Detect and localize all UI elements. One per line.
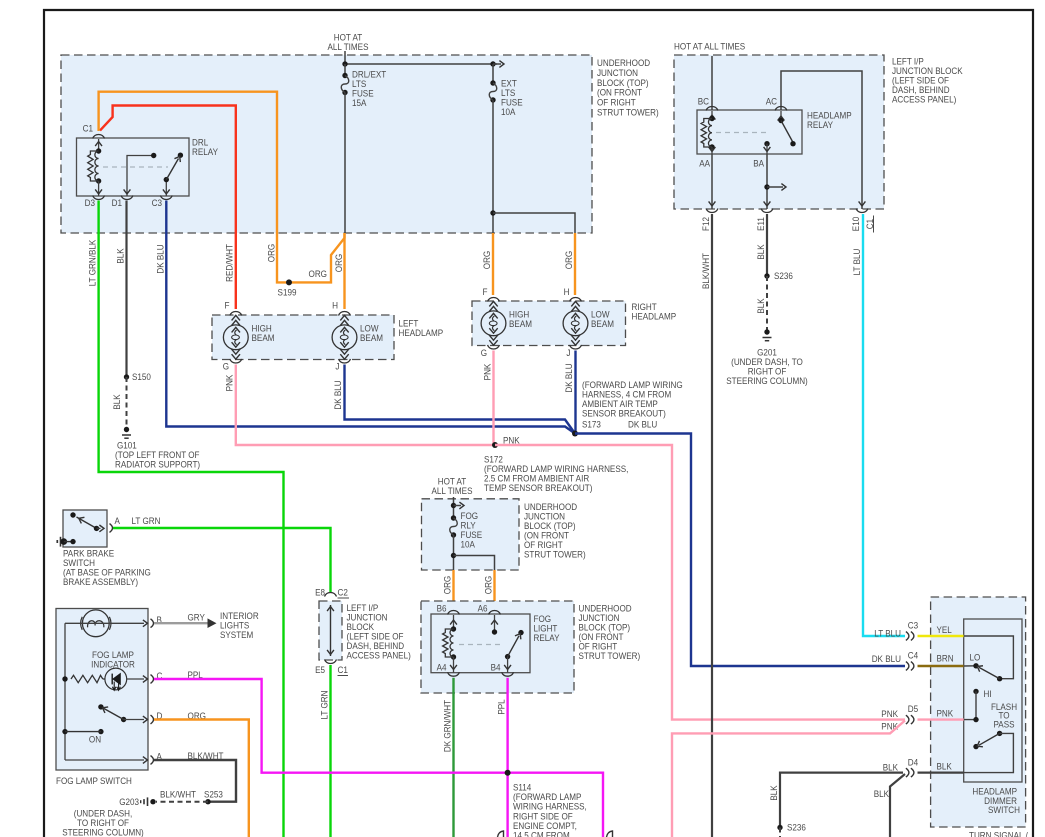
relay DRL box [77, 138, 190, 196]
pin A connector [110, 524, 113, 533]
relay HEADLAMP box [697, 110, 802, 154]
svg-text:D3: D3 [85, 198, 95, 209]
svg-text:ALL TIMES: ALL TIMES [432, 486, 473, 497]
pin C3 connector [160, 196, 172, 200]
svg-text:AA: AA [699, 159, 710, 170]
pin F connector [488, 298, 500, 302]
svg-text:ORG: ORG [266, 244, 277, 263]
pin A connector [65, 759, 144, 761]
pin A4 connector [448, 672, 460, 676]
splice S173 [572, 431, 578, 437]
svg-text:BEAM: BEAM [252, 333, 275, 344]
pin D connector [151, 715, 154, 724]
svg-text:G: G [481, 348, 487, 359]
svg-text:ORG: ORG [334, 254, 345, 273]
junction node [342, 61, 347, 66]
connector stub bottom left [498, 831, 504, 837]
svg-text:G: G [223, 362, 229, 373]
svg-text:DK BLU: DK BLU [628, 420, 657, 431]
svg-text:H: H [332, 301, 338, 312]
svg-text:RELAY: RELAY [192, 147, 219, 158]
wire DK BLU right low beam to S173 [574, 351, 576, 434]
svg-text:SENSOR BREAKOUT): SENSOR BREAKOUT) [582, 409, 666, 420]
left I/P junction block pass-through dashed box [319, 601, 342, 660]
pin H connector [570, 298, 582, 302]
pin AA exit [709, 147, 716, 152]
wire AC feed from box bottom [781, 71, 862, 209]
pin D1 contact [127, 156, 154, 197]
svg-text:BLK: BLK [937, 762, 953, 773]
svg-text:RADIATOR SUPPORT): RADIATOR SUPPORT) [115, 460, 200, 471]
DRL relay linkage dashed [103, 166, 168, 168]
wire hot feed bus [344, 51, 346, 64]
svg-text:BEAM: BEAM [509, 319, 532, 330]
svg-text:HI: HI [984, 689, 992, 700]
wire LT GRN/BLK from D3 [99, 201, 284, 837]
pin J connector [339, 359, 351, 363]
DRL relay coil [98, 139, 100, 151]
svg-text:FOG LAMP SWITCH: FOG LAMP SWITCH [56, 776, 132, 787]
dimmer arm LO [997, 676, 1002, 681]
wire ORG fuse2 to right high beam F [492, 233, 494, 295]
bulb left high beam [223, 325, 248, 350]
svg-text:DK GRN/WHT: DK GRN/WHT [442, 700, 453, 752]
wire BLK dashed to G101 [126, 377, 128, 428]
svg-text:BEAM: BEAM [360, 333, 383, 344]
fog relay coil [453, 615, 455, 629]
wire ORG from C1 to S199 [99, 92, 345, 283]
pin H connector [339, 312, 351, 316]
svg-text:PNK: PNK [881, 709, 898, 720]
relay FOG LIGHT box [431, 614, 530, 673]
splice S236 [764, 273, 769, 278]
pin J connector [570, 345, 582, 349]
svg-text:C1: C1 [865, 219, 876, 229]
pin B4 connector [502, 672, 514, 676]
svg-text:BLK: BLK [756, 244, 767, 260]
svg-text:A4: A4 [437, 663, 447, 674]
connector E11 [761, 209, 773, 213]
svg-text:14.5 CM FROM: 14.5 CM FROM [513, 831, 570, 837]
splice S199 [286, 279, 292, 285]
pin AC connector [775, 107, 787, 111]
pin A6 connector [489, 611, 501, 615]
svg-text:HOT AT ALL TIMES: HOT AT ALL TIMES [674, 42, 745, 53]
svg-text:10A: 10A [461, 540, 476, 551]
svg-text:ACCESS PANEL): ACCESS PANEL) [347, 650, 411, 661]
svg-text:C2: C2 [338, 588, 348, 599]
wire DK GRN/WHT from A4 down [452, 678, 454, 837]
svg-text:S236: S236 [787, 823, 806, 834]
relay switch arm [165, 180, 167, 196]
svg-text:C4: C4 [908, 651, 918, 662]
park brake case ground [56, 540, 58, 543]
pin BA contact [764, 141, 769, 146]
svg-text:BC: BC [698, 97, 709, 108]
bulb right low beam [563, 311, 588, 336]
switch PARK BRAKE box [63, 510, 107, 547]
svg-text:SYSTEM: SYSTEM [220, 630, 253, 641]
svg-text:LO: LO [970, 653, 981, 664]
svg-text:E11: E11 [756, 217, 767, 231]
svg-text:ORG: ORG [309, 269, 328, 280]
pin B connector [151, 619, 154, 628]
pin C1 connector [93, 135, 105, 139]
wire ORG fuse to left low beam [343, 233, 345, 309]
connector F12 [706, 209, 718, 213]
pin D1 connector [121, 196, 133, 200]
wire branch to low beam drop [490, 210, 495, 215]
svg-text:DK BLU: DK BLU [155, 244, 166, 273]
svg-text:15A: 15A [352, 98, 367, 109]
connector E5/C1 [325, 660, 337, 664]
svg-text:RED/WHT: RED/WHT [225, 244, 236, 282]
splice S114 [505, 770, 511, 776]
svg-text:STRUT TOWER): STRUT TOWER) [579, 651, 641, 662]
svg-text:STEERING COLUMN): STEERING COLUMN) [62, 828, 144, 837]
relay switch arm [780, 111, 782, 120]
wire ORG to fog relay A6 [493, 570, 495, 609]
svg-text:S199: S199 [278, 288, 297, 299]
svg-text:ON: ON [89, 735, 101, 746]
svg-text:TEMP SENSOR BREAKOUT): TEMP SENSOR BREAKOUT) [484, 483, 592, 494]
svg-text:GRY: GRY [188, 613, 206, 624]
switch FOG LAMP box [56, 609, 148, 771]
wire RED/WHT from C1 to left high beam [100, 106, 236, 310]
svg-text:AC: AC [766, 97, 777, 108]
wire BLK from D1 to S150 [125, 201, 127, 378]
underhood junction block fog relay dashed box [421, 601, 574, 693]
svg-text:S150: S150 [132, 372, 151, 383]
arrow feed continues [493, 63, 501, 65]
connector stub bottom right [607, 831, 613, 837]
svg-text:SWITCH: SWITCH [988, 805, 1020, 816]
svg-text:B6: B6 [437, 604, 447, 615]
svg-text:BLK: BLK [112, 394, 123, 410]
svg-text:LT GRN: LT GRN [132, 516, 161, 527]
fog switch toggle [98, 704, 103, 709]
svg-text:ORG: ORG [564, 251, 575, 270]
splice S236 lower [777, 825, 782, 830]
svg-text:BLK/WHT: BLK/WHT [701, 253, 712, 289]
svg-text:ALL TIMES: ALL TIMES [328, 42, 369, 53]
arrow AC exit [859, 201, 866, 206]
HI contact [973, 689, 978, 694]
pin D3 connector [93, 196, 105, 200]
relay linkage dashed [716, 132, 770, 134]
svg-text:BEAM: BEAM [591, 319, 614, 330]
svg-text:E10: E10 [851, 217, 862, 231]
connector E10 [856, 209, 868, 213]
left headlamp dashed box [212, 315, 394, 360]
splice S150 [124, 374, 129, 379]
svg-text:LT BLU: LT BLU [874, 629, 901, 640]
svg-text:ORG: ORG [482, 251, 493, 270]
pin A6 contact [494, 615, 496, 632]
wire PNK second feed from D5 down [672, 721, 905, 837]
svg-text:F: F [225, 301, 230, 312]
park brake switch contacts [70, 512, 75, 517]
underhood junction block fog fuse dashed box [422, 499, 520, 570]
headlamp dimmer switch dashed box [931, 597, 1026, 827]
svg-text:S236: S236 [774, 271, 793, 282]
underhood junction block (top left) dashed box [61, 55, 592, 233]
svg-text:C1: C1 [338, 665, 348, 676]
svg-text:PNK: PNK [937, 709, 954, 720]
ground G101 [124, 427, 129, 432]
svg-text:E8: E8 [315, 588, 325, 599]
pin G connector [488, 345, 500, 349]
svg-text:B4: B4 [491, 663, 501, 674]
svg-text:ORG: ORG [483, 576, 494, 595]
wire BLK dashed to G201 [766, 276, 768, 330]
fog switch illumination bulb [82, 610, 109, 637]
svg-text:DK BLU: DK BLU [872, 654, 901, 665]
wire LT BLU E10 to dimmer C3 [863, 214, 905, 636]
pin BA exit [764, 147, 771, 152]
svg-text:ORG: ORG [442, 576, 453, 595]
svg-text:RELAY: RELAY [534, 633, 561, 644]
svg-text:RELAY: RELAY [807, 120, 834, 131]
svg-text:HEADLAMP: HEADLAMP [399, 328, 444, 339]
wire LT GRN from E5 down [329, 665, 331, 837]
svg-text:BLK: BLK [874, 789, 890, 800]
svg-text:C1: C1 [83, 124, 93, 135]
svg-text:BLK: BLK [769, 785, 780, 801]
wire BLK E11 to S236 [766, 214, 768, 276]
branch to B4 contact drop [451, 553, 456, 558]
wire PNK from left high beam G to S172 [236, 365, 495, 446]
right headlamp dashed box [472, 301, 626, 346]
svg-text:STEERING COLUMN): STEERING COLUMN) [726, 376, 808, 387]
svg-text:PNK: PNK [482, 363, 493, 380]
svg-text:LT GRN: LT GRN [319, 690, 330, 719]
junction BA arrow right [764, 184, 769, 189]
svg-text:YEL: YEL [937, 625, 952, 636]
svg-text:HEADLAMP: HEADLAMP [632, 312, 677, 323]
bulb right high beam [481, 311, 506, 336]
fuse FOG RLY 10A [453, 497, 455, 518]
svg-text:J: J [335, 362, 339, 373]
svg-text:TURN SIGNAL /: TURN SIGNAL / [969, 831, 1028, 837]
pin F connector [230, 312, 242, 316]
fuse EXT LTS 10A [492, 64, 494, 83]
dimmer lower arm [997, 731, 1002, 736]
wire ORG branch to right low beam H [574, 233, 576, 295]
connector E8/C2 [325, 593, 337, 597]
svg-text:BLK: BLK [756, 298, 767, 314]
indicator resistor and LED [64, 623, 66, 760]
svg-text:PNK: PNK [225, 374, 236, 391]
dimmer lower arm to BLK row [964, 733, 1014, 772]
svg-text:STRUT TOWER): STRUT TOWER) [524, 550, 586, 561]
pin C connector [151, 675, 154, 684]
pin G connector [230, 359, 242, 363]
ground G201 [764, 329, 769, 334]
svg-text:F12: F12 [701, 217, 712, 231]
svg-text:BRN: BRN [937, 654, 954, 665]
wire PPL from B4 to S114 [506, 678, 508, 837]
svg-text:J: J [566, 348, 570, 359]
fog relay switch arm [505, 654, 510, 659]
wire ORG fuse to fog relay B6 [452, 570, 454, 609]
svg-text:F: F [483, 287, 488, 298]
splice S253 [205, 799, 210, 804]
wire BC feed [711, 56, 713, 110]
wire BLK/WHT F12 down full page [711, 214, 713, 837]
svg-text:BRAKE ASSEMBLY): BRAKE ASSEMBLY) [63, 577, 138, 588]
svg-text:BA: BA [753, 159, 764, 170]
left I/P junction block dashed box (headlamp relay) [674, 55, 884, 209]
dashed BLK/WHT to G203 [156, 801, 208, 803]
wire BLK from D4 to S236 lower [780, 773, 903, 828]
splice S172 and PNK run to dimmer D5 [492, 442, 498, 448]
wire DK BLU from left low beam J to S173 [345, 365, 576, 434]
svg-text:A: A [115, 516, 121, 527]
svg-text:D4: D4 [908, 758, 918, 769]
pin B6 connector [448, 611, 460, 615]
svg-text:C3: C3 [908, 621, 918, 632]
svg-text:S253: S253 [204, 790, 223, 801]
svg-text:PASS: PASS [994, 720, 1015, 731]
svg-text:10A: 10A [501, 107, 516, 118]
svg-text:PPL: PPL [496, 699, 507, 714]
fuse DRL/EXT LTS 15A [344, 64, 346, 75]
wire PNK right high beam to S172 [492, 351, 494, 446]
headlamp relay coil [711, 111, 713, 118]
svg-text:BLK: BLK [115, 248, 126, 264]
svg-text:LT GRN/BLK: LT GRN/BLK [87, 239, 98, 286]
LO contact [964, 665, 976, 667]
bulb left low beam [332, 325, 357, 350]
svg-text:STRUT TOWER): STRUT TOWER) [597, 108, 659, 119]
svg-text:H: H [564, 287, 570, 298]
dimmer internal feed to pivot [964, 636, 1014, 679]
svg-text:ACCESS PANEL): ACCESS PANEL) [892, 95, 956, 106]
flash-to-pass feed [964, 691, 976, 719]
svg-text:DK BLU: DK BLU [564, 363, 575, 392]
ground G203 [143, 799, 145, 804]
dimmer switch inner box [964, 619, 1022, 782]
wire BLK second from below to D4 [890, 774, 905, 837]
svg-text:LT BLU: LT BLU [852, 249, 863, 276]
svg-text:D1: D1 [112, 198, 122, 209]
svg-text:E5: E5 [315, 665, 325, 676]
pin BC connector [706, 107, 718, 111]
wire DK BLU from S173 to dimmer C4 [575, 434, 905, 667]
wire DK BLU from C3 to S173 [166, 201, 575, 434]
svg-text:A6: A6 [478, 604, 488, 615]
svg-text:S173: S173 [582, 420, 601, 431]
svg-text:BLK/WHT: BLK/WHT [160, 790, 196, 801]
svg-text:DK BLU: DK BLU [333, 380, 344, 409]
ON contact [62, 729, 67, 734]
svg-text:D5: D5 [908, 704, 918, 715]
svg-text:G203: G203 [119, 797, 139, 808]
svg-text:C3: C3 [152, 198, 162, 209]
fog relay linkage dashed [459, 644, 503, 646]
